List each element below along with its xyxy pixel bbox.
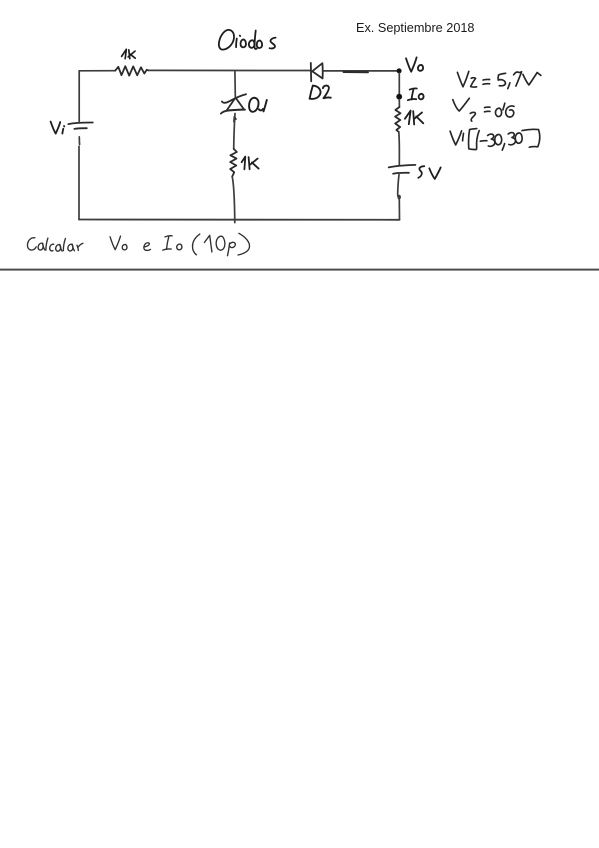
wire Io to resistor [398, 100, 400, 108]
designator label D2 [310, 86, 331, 99]
note line 2: Vg = 0'6 [453, 98, 514, 121]
wire middle vertical upper (top wire to zener D1) [234, 71, 236, 97]
wire middle resistor to bottom [232, 177, 235, 223]
wire diode D2 to node Vo [323, 71, 397, 72]
wire zener D1 to middle resistor [234, 114, 235, 149]
node Vo (junction dot) [397, 68, 402, 73]
resistor 1k (top, series) [115, 66, 148, 75]
resistor 1K (middle branch) [230, 149, 237, 177]
source label Vi [51, 122, 65, 134]
designator label D1 [249, 98, 267, 112]
wire resistor to 5V battery [398, 132, 401, 165]
node Io (junction dot) [396, 94, 402, 100]
wire left vertical upper (top-left corner to battery Vi) [78, 71, 80, 123]
value label 1K (middle resistor) [242, 157, 259, 170]
diode D2 [311, 63, 323, 81]
wire bottom (right to left) [79, 219, 399, 221]
wire Vo to Io [398, 73, 400, 94]
value label 1k (top resistor) [122, 49, 136, 58]
current label Io [408, 88, 424, 100]
note line 3: Vi [-30,30] [450, 129, 540, 151]
battery (source) Vi [68, 122, 93, 128]
caption: Calcular Vo e Io (10p) [27, 233, 249, 255]
value label 5V [418, 166, 440, 179]
wire left vertical lower (battery Vi to bottom) [78, 137, 81, 220]
svg-text:Ex. Septiembre 2018: Ex. Septiembre 2018 [356, 21, 475, 35]
net label Vo [406, 57, 423, 71]
wire top-left (Vi branch to resistor 1k) [79, 70, 115, 72]
battery 5V [389, 165, 416, 174]
wire top (resistor 1k to diode D2) [149, 69, 311, 71]
resistor 1K (right branch) [395, 107, 400, 132]
zener diode D1 (bar with hooks) [222, 94, 246, 103]
zener diode D1 (triangle) [221, 98, 245, 114]
zener diode D1 arrow tick [234, 117, 236, 122]
wire 5V battery to bottom (with hook) [398, 175, 400, 220]
separator line [0, 269, 599, 271]
value label 1K (right resistor) [405, 111, 423, 125]
note line 1: Vz = 5,7V [457, 71, 541, 88]
title Diodos [219, 30, 276, 50]
